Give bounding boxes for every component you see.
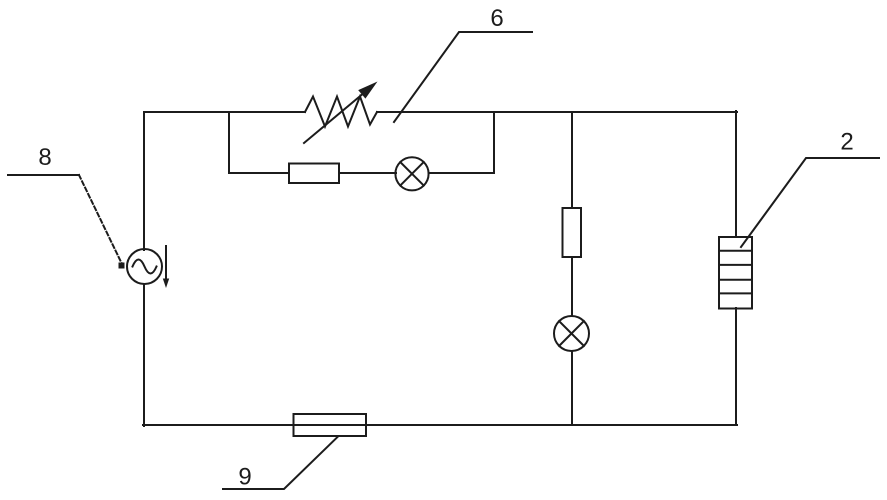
label 2 leader line: [741, 158, 879, 247]
wire sub-loop right: [429, 112, 494, 173]
svg-text:6: 6: [490, 5, 503, 32]
svg-text:2: 2: [840, 129, 853, 156]
label 6: [490, 5, 503, 32]
AC source: [127, 249, 162, 284]
lamp (middle branch): [554, 316, 589, 351]
wire middle branch upper: [571, 112, 573, 208]
label 9 leader line: [223, 437, 338, 489]
resistor (middle branch): [563, 208, 582, 257]
label 6 leader line: [394, 32, 532, 122]
resistor (sub-loop): [289, 164, 339, 184]
wire right segment lower: [735, 308, 737, 425]
variable resistor R (zigzag): [305, 97, 377, 127]
wire right segment upper: [735, 111, 737, 237]
label 8 leader line (dashed with square tip): [8, 175, 125, 269]
wire top-left segment: [144, 112, 305, 250]
variable resistor arrow: [304, 82, 378, 144]
wire left lower segment: [143, 284, 145, 426]
wire bottom segment: [143, 424, 737, 426]
label 8: [38, 144, 51, 171]
wire middle branch lower: [571, 351, 573, 425]
wire sub-loop middle: [339, 172, 396, 174]
heating element 2 (segmented box): [719, 237, 752, 309]
lamp (sub-loop): [395, 157, 428, 190]
svg-text:9: 9: [238, 464, 251, 491]
current direction arrow: [163, 246, 169, 288]
wire sub-loop left vertical: [229, 112, 289, 173]
fuse 9 (box over bottom wire): [294, 414, 367, 436]
wire middle branch between resistor and lamp: [571, 257, 573, 316]
svg-text:8: 8: [38, 144, 51, 171]
label 9: [238, 464, 251, 491]
wire top-right segment: [377, 111, 737, 113]
label 2: [840, 129, 853, 156]
